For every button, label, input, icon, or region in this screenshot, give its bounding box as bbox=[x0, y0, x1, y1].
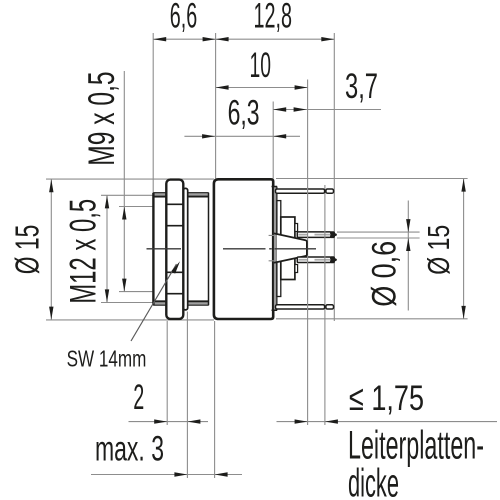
svg-text:M9 x 0,5: M9 x 0,5 bbox=[80, 71, 122, 165]
dimension lines bbox=[51, 39, 497, 474]
part: bottom lug bbox=[276, 305, 325, 309]
svg-text:6,3: 6,3 bbox=[228, 93, 260, 133]
part: thread section bbox=[188, 193, 209, 306]
svg-text:M12 x 0,5: M12 x 0,5 bbox=[62, 199, 104, 304]
part: insulator strip bbox=[277, 201, 281, 297]
part: rear plate gray band bbox=[274, 187, 277, 311]
part: top lug bbox=[276, 189, 325, 193]
centerline bbox=[147, 248, 317, 250]
part: step top bbox=[295, 224, 298, 232]
svg-text:10: 10 bbox=[250, 45, 272, 85]
svg-text:2: 2 bbox=[133, 377, 144, 417]
svg-text:3,7: 3,7 bbox=[345, 66, 378, 106]
part: thread section bands bbox=[188, 193, 209, 197]
part: washer bbox=[183, 188, 187, 310]
SW 14mm leader bbox=[131, 264, 177, 341]
part: insulator block bbox=[281, 217, 295, 280]
part: bottom pin bbox=[297, 257, 331, 263]
svg-text:Ø 15: Ø 15 bbox=[10, 225, 47, 275]
pin core lines bbox=[299, 235, 331, 260]
svg-text:≤ 1,75: ≤ 1,75 bbox=[349, 378, 424, 418]
extension lines bbox=[46, 33, 468, 478]
part: top pin bbox=[297, 232, 331, 238]
svg-text:12,8: 12,8 bbox=[254, 0, 293, 35]
extension line ticks over pins and lugs bbox=[308, 188, 325, 311]
svg-text:SW 14mm: SW 14mm bbox=[67, 346, 147, 372]
tongue hidden-edge stubs bbox=[269, 235, 275, 260]
svg-text:max. 3: max. 3 bbox=[95, 429, 164, 469]
svg-text:dicke: dicke bbox=[348, 462, 399, 500]
part: M12 stub thread bands bbox=[153, 193, 167, 197]
part: M12 stub bbox=[153, 193, 167, 306]
svg-text:Ø 0,6: Ø 0,6 bbox=[365, 241, 403, 307]
svg-text:Ø 15: Ø 15 bbox=[421, 225, 456, 275]
part: rear plate outline bbox=[272, 187, 278, 311]
svg-text:6,6: 6,6 bbox=[170, 0, 197, 35]
part: hex nut bbox=[166, 180, 183, 319]
part: center tongue bbox=[277, 234, 305, 262]
arrowheads bbox=[49, 37, 466, 477]
part: main body bbox=[214, 179, 273, 319]
part: step bottom bbox=[295, 265, 298, 273]
